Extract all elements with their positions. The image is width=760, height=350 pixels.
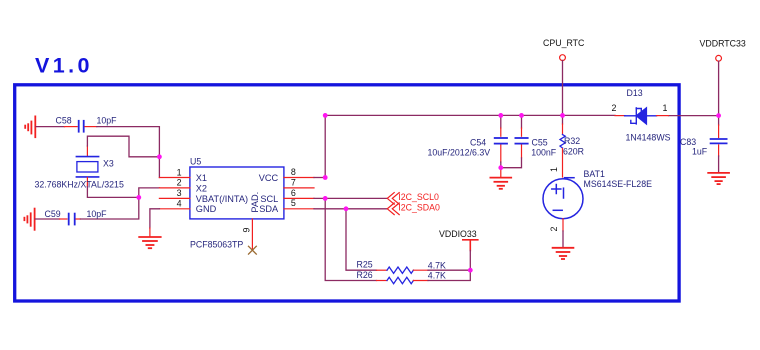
pin 5: [284, 208, 314, 210]
svg-text:SDA: SDA: [259, 204, 279, 214]
svg-text:CPU_RTC: CPU_RTC: [543, 38, 585, 48]
svg-text:100nF: 100nF: [531, 147, 557, 157]
svg-text:C83: C83: [680, 137, 696, 147]
resistor R26: [387, 277, 413, 283]
svg-text:VCC: VCC: [259, 173, 279, 183]
wire: SDA node down to R25: [346, 209, 377, 270]
pin wire red: R32 to BAT1: [562, 149, 564, 178]
svg-text:6: 6: [291, 188, 296, 198]
svg-text:VBAT(/INTA): VBAT(/INTA): [196, 194, 248, 204]
no-connect X on pin 9: [249, 246, 257, 254]
ground (earth, sideways) for C58: [25, 116, 35, 137]
svg-text:9: 9: [242, 228, 252, 233]
pin wire red: R26 right: [413, 280, 428, 282]
svg-text:X3: X3: [103, 158, 114, 168]
capacitor C55: [515, 138, 527, 144]
pin wire red: R25 left: [377, 269, 388, 271]
svg-text:4.7K: 4.7K: [428, 271, 446, 281]
pin wire red: diode D13 left: [615, 115, 625, 117]
wire: R25 to VDDIO node: [428, 269, 470, 271]
svg-text:VDDRTC33: VDDRTC33: [700, 39, 746, 49]
svg-text:10uF/2012/6.3V: 10uF/2012/6.3V: [428, 147, 491, 157]
svg-text:GND: GND: [196, 204, 217, 214]
net port chevron I2C_SDA0: [387, 203, 399, 215]
pin stub red: crystal top: [86, 146, 88, 156]
wire: BAT1 to ground: [562, 231, 564, 247]
svg-text:1N4148WS: 1N4148WS: [626, 132, 671, 142]
capacitor C58: [79, 121, 84, 132]
svg-text:4: 4: [177, 199, 182, 209]
svg-text:2: 2: [612, 103, 617, 113]
svg-text:V1.0: V1.0: [35, 54, 93, 78]
crystal X3: [76, 157, 98, 177]
wire: node B up to pin 2: [139, 188, 160, 198]
capacitor C54 leads: [500, 115, 502, 128]
junction node dots: [136, 113, 721, 273]
ground (earth, sideways) for C59: [24, 209, 34, 230]
ground below U5: [139, 237, 161, 248]
power bar VDDIO33: [463, 240, 478, 251]
svg-text:SCL: SCL: [260, 194, 278, 204]
resistor R25: [387, 267, 413, 273]
pin wire red: to chip ground: [149, 228, 151, 237]
svg-text:1uF: 1uF: [692, 147, 708, 157]
wire: C58 ground to C58: [36, 126, 65, 128]
wire: C55 bottom to C54 bottom: [501, 158, 522, 168]
IC U5 body: [190, 167, 284, 219]
svg-text:2: 2: [549, 227, 559, 232]
capacitor C54: [495, 138, 507, 144]
ground below C54/C55: [490, 178, 511, 189]
wire: C59 ground to C59: [35, 218, 59, 220]
pin wire red: C58 right: [85, 126, 97, 128]
svg-text:5: 5: [291, 198, 296, 208]
pin 3: [159, 197, 190, 199]
wire: R26 up to VDDIO node: [428, 270, 470, 280]
pin wire red: BAT1 bottom: [562, 219, 564, 231]
svg-text:X1: X1: [196, 173, 207, 183]
svg-text:R25: R25: [357, 259, 373, 269]
svg-text:MS614SE-FL28E: MS614SE-FL28E: [584, 179, 653, 189]
net port chevron I2C_SCL0: [387, 193, 399, 205]
wire: pin 8 to VCC node: [314, 177, 325, 179]
ground below C83: [708, 173, 729, 184]
pin wire red: R26 left: [377, 280, 388, 282]
svg-text:PAD.: PAD.: [250, 192, 260, 213]
capacitor C55 leads: [521, 115, 523, 128]
svg-text:C54: C54: [470, 138, 486, 148]
svg-text:BAT1: BAT1: [584, 169, 605, 179]
pin wire red: R25 right: [413, 269, 428, 271]
svg-text:VDDIO33: VDDIO33: [439, 229, 477, 239]
svg-text:D13: D13: [627, 88, 643, 98]
pin wire red: C59 right: [76, 218, 80, 220]
power port CPU_RTC: [560, 55, 566, 61]
wire red: node to ground: [500, 168, 502, 177]
svg-text:8: 8: [291, 167, 296, 177]
wire: SCL node down to R26: [325, 198, 376, 280]
svg-text:R26: R26: [357, 270, 373, 280]
wire: SDA net: [314, 208, 387, 210]
pin wire red: C59 left: [60, 218, 68, 220]
svg-text:1: 1: [549, 167, 559, 172]
svg-text:1: 1: [177, 167, 182, 177]
pin wire red: diode D13 right: [657, 115, 669, 117]
svg-text:X2: X2: [196, 183, 207, 193]
svg-text:10pF: 10pF: [87, 209, 108, 219]
svg-text:I2C_SDA0: I2C_SDA0: [398, 203, 440, 213]
wire: crystal top to node A: [87, 136, 159, 157]
svg-text:3: 3: [177, 188, 182, 198]
sheet border frame: [15, 85, 679, 301]
top bus wire: [325, 114, 615, 116]
svg-text:C59: C59: [45, 209, 61, 219]
svg-text:C58: C58: [56, 115, 72, 125]
svg-text:7: 7: [291, 177, 296, 187]
wire: diode right to VDDRTC node: [669, 115, 719, 117]
wire: SCL net: [314, 197, 387, 199]
pin stub red: crystal bottom: [86, 177, 88, 186]
svg-text:32.768KHz/XTAL/3215: 32.768KHz/XTAL/3215: [35, 179, 124, 189]
wire: VCC vertical from bus: [324, 115, 326, 177]
svg-text:I2C_SCL0: I2C_SCL0: [398, 192, 439, 202]
svg-text:C55: C55: [532, 138, 548, 148]
power port VDDRTC33: [716, 55, 722, 61]
pin wire red: C58 left: [65, 126, 78, 128]
svg-text:10pF: 10pF: [97, 116, 118, 126]
pin 1: [159, 177, 190, 179]
wire: node A down to pin 1: [158, 157, 160, 178]
pin 6: [284, 197, 314, 199]
capacitor C83: [711, 139, 727, 143]
resistor R32: [560, 135, 565, 149]
wire: CPU_RTC down to bus: [562, 61, 564, 116]
svg-text:PCF85063TP: PCF85063TP: [190, 240, 243, 250]
pin 8: [284, 177, 314, 179]
pin 9: [251, 219, 253, 250]
capacitor C59: [69, 214, 75, 225]
wire: pin 4 to ground: [150, 209, 160, 228]
pin 7: [284, 187, 314, 189]
resistor R32 leads: [562, 115, 564, 124]
wire: C59 to node B: [80, 197, 138, 219]
svg-text:4.7K: 4.7K: [428, 260, 446, 270]
ground below BAT1: [553, 248, 574, 259]
svg-text:U5: U5: [190, 157, 201, 167]
wire: C58 to node A: [97, 127, 160, 157]
pin 4: [159, 208, 190, 210]
svg-text:620R: 620R: [563, 147, 584, 157]
wire: VDDRTC33 down to node: [718, 61, 720, 115]
pin 2: [159, 187, 190, 189]
capacitor C83 leads: [718, 116, 720, 125]
wire: VDDIO33 to R25/R26 node: [469, 251, 471, 271]
svg-text:1: 1: [663, 103, 668, 113]
battery BAT1: [543, 178, 583, 219]
svg-text:R32: R32: [564, 136, 580, 146]
svg-text:2: 2: [177, 178, 182, 188]
wire: crystal bottom to node B: [87, 187, 138, 198]
diode D13: [625, 108, 657, 124]
